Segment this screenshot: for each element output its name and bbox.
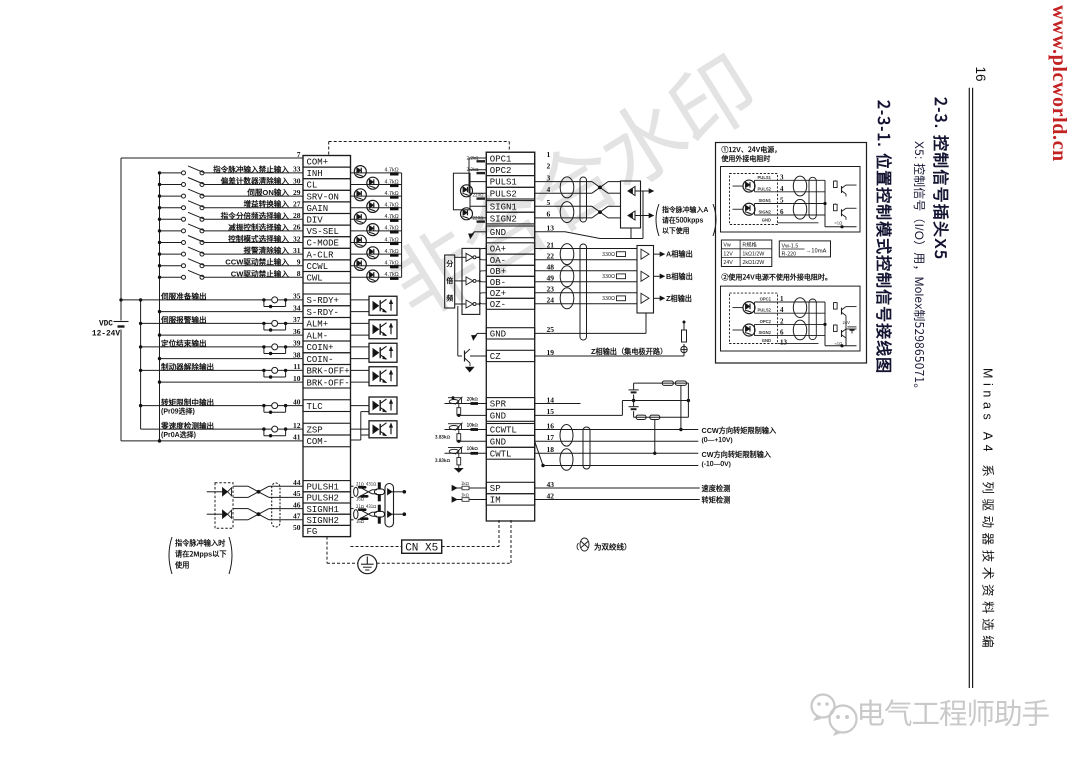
svg-text:使用外接电阻时: 使用外接电阻时 <box>720 154 770 164</box>
svg-text:指令脉冲输入A: 指令脉冲输入A <box>662 204 708 214</box>
svg-text:17: 17 <box>547 433 555 442</box>
svg-text:电气工程师助手: 电气工程师助手 <box>857 692 1050 733</box>
svg-text:INH: INH <box>307 169 323 179</box>
svg-text:Vw-1.5: Vw-1.5 <box>782 242 799 250</box>
svg-text:8: 8 <box>297 269 301 278</box>
svg-text:SIGNH2: SIGNH2 <box>307 516 339 526</box>
svg-text:GND: GND <box>762 338 771 344</box>
svg-text:431Ω: 431Ω <box>366 504 377 510</box>
svg-text:VDC: VDC <box>99 321 113 329</box>
svg-text:指令分倍频选择输入: 指令分倍频选择输入 <box>221 210 290 221</box>
svg-text:47: 47 <box>293 512 301 521</box>
svg-text:20kΩ: 20kΩ <box>467 395 479 402</box>
svg-text:GND: GND <box>762 217 771 223</box>
svg-text:R规格: R规格 <box>742 241 757 249</box>
svg-text:4.7kΩ: 4.7kΩ <box>385 259 399 267</box>
svg-text:OB+: OB+ <box>490 267 506 277</box>
svg-text:11: 11 <box>293 362 300 371</box>
svg-text:CCW驱动禁止输入: CCW驱动禁止输入 <box>225 257 289 268</box>
svg-text:SRV-ON: SRV-ON <box>307 192 339 202</box>
svg-text:1kΩ1/2W: 1kΩ1/2W <box>742 249 764 257</box>
svg-text:DIV: DIV <box>307 216 324 226</box>
svg-text:43: 43 <box>547 480 555 489</box>
svg-text:330Ω: 330Ω <box>602 272 615 280</box>
svg-text:OA-: OA- <box>490 256 506 266</box>
svg-text:CN X5: CN X5 <box>405 543 438 555</box>
svg-text:GND: GND <box>490 412 506 422</box>
svg-text:PULS2: PULS2 <box>758 186 772 192</box>
svg-text:S-RDY+: S-RDY+ <box>307 296 339 306</box>
svg-text:PULS2: PULS2 <box>758 308 772 314</box>
svg-text:使用: 使用 <box>174 561 189 571</box>
svg-text:19: 19 <box>547 348 555 357</box>
svg-text:以下使用: 以下使用 <box>662 225 690 235</box>
svg-text:COIN+: COIN+ <box>307 343 334 353</box>
svg-text:PULSH2: PULSH2 <box>307 494 339 504</box>
svg-text:4.7kΩ: 4.7kΩ <box>385 212 399 220</box>
svg-text:OZ-: OZ- <box>490 300 506 310</box>
svg-text:18: 18 <box>547 445 555 454</box>
svg-text:速度检测: 速度检测 <box>702 484 731 494</box>
svg-text:431Ω: 431Ω <box>366 482 377 488</box>
svg-text:3: 3 <box>780 173 784 181</box>
svg-text:分: 分 <box>446 259 453 269</box>
svg-text:www.plcworld.cn: www.plcworld.cn <box>1048 5 1070 162</box>
svg-text:23: 23 <box>547 285 555 294</box>
svg-text:45: 45 <box>293 489 301 498</box>
svg-text:36: 36 <box>293 327 301 336</box>
svg-text:24V: 24V <box>723 258 733 266</box>
svg-text:22: 22 <box>547 252 555 261</box>
svg-text:9: 9 <box>297 258 301 267</box>
svg-text:SIGN2: SIGN2 <box>758 210 771 216</box>
svg-text:增益转换输入: 增益转换输入 <box>243 199 289 210</box>
svg-text:R-220: R-220 <box>782 250 797 258</box>
svg-text:SIGN2: SIGN2 <box>758 330 771 336</box>
svg-text:49: 49 <box>547 274 555 283</box>
svg-text:28: 28 <box>293 211 301 220</box>
svg-text:FG: FG <box>307 527 318 537</box>
svg-text:4.7kΩ: 4.7kΩ <box>385 189 399 197</box>
svg-text:6: 6 <box>780 208 784 216</box>
svg-text:S-RDY-: S-RDY- <box>307 308 339 318</box>
svg-text:OB-: OB- <box>490 278 506 288</box>
svg-text:BRK-OFF+: BRK-OFF+ <box>307 367 350 377</box>
svg-text:3.83kΩ: 3.83kΩ <box>435 433 450 440</box>
svg-text:14: 14 <box>547 395 555 404</box>
svg-text:10: 10 <box>293 374 301 383</box>
svg-text:34: 34 <box>293 303 301 312</box>
svg-text:37: 37 <box>293 315 301 324</box>
svg-text:伺服报警输出: 伺服报警输出 <box>160 314 207 325</box>
svg-text:12V: 12V <box>723 249 733 257</box>
svg-text:30: 30 <box>293 176 301 185</box>
svg-text:SIGN1: SIGN1 <box>758 198 771 204</box>
svg-text:2-3-1. 位置控制模式控制信号接线图: 2-3-1. 位置控制模式控制信号接线图 <box>873 100 897 374</box>
svg-text:OZ+: OZ+ <box>490 289 506 299</box>
svg-text:4.7kΩ: 4.7kΩ <box>385 270 399 278</box>
svg-text:4.7kΩ: 4.7kΩ <box>385 201 399 209</box>
svg-text:2: 2 <box>547 162 551 171</box>
svg-text:伺服ON输入: 伺服ON输入 <box>246 187 289 198</box>
svg-text:请在500kpps: 请在500kpps <box>662 215 704 225</box>
svg-text:5: 5 <box>547 198 551 207</box>
svg-text:减振控制选择输入: 减振控制选择输入 <box>228 222 289 233</box>
svg-text:SIGN2: SIGN2 <box>490 214 517 224</box>
svg-text:制动器解除输出: 制动器解除输出 <box>161 361 214 372</box>
svg-text:1: 1 <box>780 295 784 303</box>
svg-text:CL: CL <box>307 181 318 191</box>
svg-text:偏差计数器清除输入: 偏差计数器清除输入 <box>221 176 290 187</box>
svg-text:SPR: SPR <box>490 400 507 410</box>
svg-text:BRK-OFF-: BRK-OFF- <box>307 378 350 388</box>
svg-text:21: 21 <box>547 240 555 249</box>
svg-text:2: 2 <box>780 317 784 325</box>
svg-text:控制模式选择输入: 控制模式选择输入 <box>228 234 289 245</box>
svg-text:为双绞线）: 为双绞线） <box>594 542 632 553</box>
svg-text:4.7kΩ: 4.7kΩ <box>385 235 399 243</box>
svg-text:A相输出: A相输出 <box>666 250 693 260</box>
svg-text:VS-SEL: VS-SEL <box>307 227 339 237</box>
svg-text:指令脉冲输入禁止输入: 指令脉冲输入禁止输入 <box>213 164 289 175</box>
svg-text:29: 29 <box>293 188 301 197</box>
svg-text:A-CLR: A-CLR <box>307 250 335 260</box>
svg-text:4: 4 <box>780 306 784 314</box>
svg-text:(Pr09选择): (Pr09选择) <box>161 406 195 416</box>
svg-text:频: 频 <box>446 293 453 303</box>
svg-text:1kΩ: 1kΩ <box>461 493 470 499</box>
svg-text:25: 25 <box>547 325 555 334</box>
svg-text:3.83kΩ: 3.83kΩ <box>435 457 450 464</box>
svg-text:ALM+: ALM+ <box>307 320 329 330</box>
svg-text:Vw: Vw <box>723 241 731 249</box>
svg-text:C-MODE: C-MODE <box>307 239 339 249</box>
svg-text:42: 42 <box>547 491 555 500</box>
svg-text:5: 5 <box>780 197 784 205</box>
svg-text:②使用24V电源不使用外接电阻时。: ②使用24V电源不使用外接电阻时。 <box>721 273 831 283</box>
svg-text:TLC: TLC <box>307 402 324 412</box>
svg-text:IM: IM <box>490 496 501 506</box>
svg-text:330Ω: 330Ω <box>602 294 615 302</box>
svg-text:倍: 倍 <box>446 276 453 286</box>
svg-text:4.7kΩ: 4.7kΩ <box>385 166 399 174</box>
svg-text:32: 32 <box>293 234 301 243</box>
svg-text:7: 7 <box>297 150 301 159</box>
svg-text:6: 6 <box>780 329 784 337</box>
svg-text:（: （ <box>572 542 580 553</box>
svg-text:SP: SP <box>490 484 501 494</box>
svg-text:PULS1: PULS1 <box>490 178 517 188</box>
svg-text:1kΩ: 1kΩ <box>461 481 470 487</box>
svg-text:6: 6 <box>547 210 551 219</box>
svg-text:OPC2: OPC2 <box>760 319 772 325</box>
svg-text:24V: 24V <box>843 320 851 326</box>
svg-text:指令脉冲输入时: 指令脉冲输入时 <box>175 539 226 549</box>
svg-text:1: 1 <box>547 150 551 159</box>
svg-text:50: 50 <box>293 523 301 532</box>
svg-text:48: 48 <box>547 263 555 272</box>
svg-text:CWTL: CWTL <box>490 449 512 459</box>
svg-text:39: 39 <box>293 339 301 348</box>
svg-text:GND: GND <box>490 438 506 448</box>
svg-text:24: 24 <box>547 296 555 305</box>
svg-text:GND: GND <box>490 330 506 340</box>
svg-text:12-24V: 12-24V <box>92 331 120 339</box>
svg-text:26: 26 <box>293 223 301 232</box>
svg-text:ZSP: ZSP <box>307 425 323 435</box>
svg-text:4.7kΩ: 4.7kΩ <box>385 247 399 255</box>
svg-text:44: 44 <box>293 478 301 487</box>
svg-text:COM-: COM- <box>307 437 329 447</box>
svg-text:330Ω: 330Ω <box>602 250 615 258</box>
svg-text:15: 15 <box>547 407 555 416</box>
svg-text:10kΩ: 10kΩ <box>467 421 479 428</box>
svg-text:4: 4 <box>547 185 551 194</box>
svg-text:报警清除输入: 报警清除输入 <box>243 245 289 256</box>
svg-text:B相输出: B相输出 <box>666 272 693 282</box>
svg-text:COM+: COM+ <box>307 158 329 168</box>
svg-text:16: 16 <box>973 67 988 82</box>
svg-text:41: 41 <box>293 433 301 442</box>
svg-text:定位结束输出: 定位结束输出 <box>161 338 207 349</box>
svg-text:Z相输出: Z相输出 <box>666 294 692 304</box>
svg-text:Minas A4 系列驱动器技术资料选编: Minas A4 系列驱动器技术资料选编 <box>980 368 999 652</box>
svg-text:16: 16 <box>547 421 555 430</box>
svg-text:PULS1: PULS1 <box>758 175 772 181</box>
svg-text:38: 38 <box>293 350 301 359</box>
svg-text:(Pr0A选择): (Pr0A选择) <box>161 430 196 440</box>
svg-text:PULS2: PULS2 <box>490 189 517 199</box>
svg-text:12: 12 <box>293 421 301 430</box>
svg-text:31: 31 <box>293 246 301 255</box>
svg-text:CWL: CWL <box>307 274 323 284</box>
svg-text:PULSH1: PULSH1 <box>307 482 339 492</box>
svg-text:46: 46 <box>293 500 301 509</box>
svg-text:OA+: OA+ <box>490 245 506 255</box>
svg-text:CW驱动禁止输入: CW驱动禁止输入 <box>231 268 290 279</box>
svg-text:13: 13 <box>780 339 788 347</box>
svg-text:请在2Mpps以下: 请在2Mpps以下 <box>175 550 227 560</box>
svg-text:2kΩ1/2W: 2kΩ1/2W <box>742 258 764 266</box>
svg-text:OPC1: OPC1 <box>760 297 772 303</box>
svg-text:2-3. 控制信号插头X5: 2-3. 控制信号插头X5 <box>930 97 954 260</box>
svg-text:GND: GND <box>490 228 506 238</box>
svg-text:13: 13 <box>547 224 555 233</box>
svg-text:≈1Ω: ≈1Ω <box>835 220 843 226</box>
svg-text:CZ: CZ <box>490 352 501 362</box>
svg-text:(-10—0V): (-10—0V) <box>702 458 731 468</box>
svg-text:40: 40 <box>293 397 301 406</box>
svg-text:33: 33 <box>293 165 301 174</box>
svg-text:OPC1: OPC1 <box>490 154 512 164</box>
svg-text:4.7kΩ: 4.7kΩ <box>385 224 399 232</box>
svg-text:转矩检测: 转矩检测 <box>702 496 731 506</box>
svg-text:X5: 控制信号（I/O）用，Molex制529865071: X5: 控制信号（I/O）用，Molex制529865071。 <box>911 141 928 395</box>
svg-text:伺服准备输出: 伺服准备输出 <box>160 291 207 302</box>
svg-text:CCWTL: CCWTL <box>490 426 517 436</box>
svg-text:10kΩ: 10kΩ <box>467 445 479 452</box>
svg-text:COIN-: COIN- <box>307 355 334 365</box>
svg-text:Z相输出（集电极开路）: Z相输出（集电极开路） <box>591 347 667 357</box>
svg-text:35: 35 <box>293 292 301 301</box>
svg-text:4.7kΩ: 4.7kΩ <box>385 177 399 185</box>
svg-text:SIGNH1: SIGNH1 <box>307 505 339 515</box>
svg-text:ALM-: ALM- <box>307 331 329 341</box>
svg-text:OPC2: OPC2 <box>490 166 512 176</box>
svg-text:27: 27 <box>293 200 301 209</box>
svg-text:3: 3 <box>547 173 551 182</box>
svg-text:4: 4 <box>780 185 784 193</box>
svg-text:SIGN1: SIGN1 <box>490 203 517 213</box>
svg-text:(0—+10V): (0—+10V) <box>702 434 733 444</box>
svg-text:CCWL: CCWL <box>307 262 329 272</box>
svg-text:GAIN: GAIN <box>307 204 329 214</box>
svg-text:→10mA: →10mA <box>806 246 827 255</box>
